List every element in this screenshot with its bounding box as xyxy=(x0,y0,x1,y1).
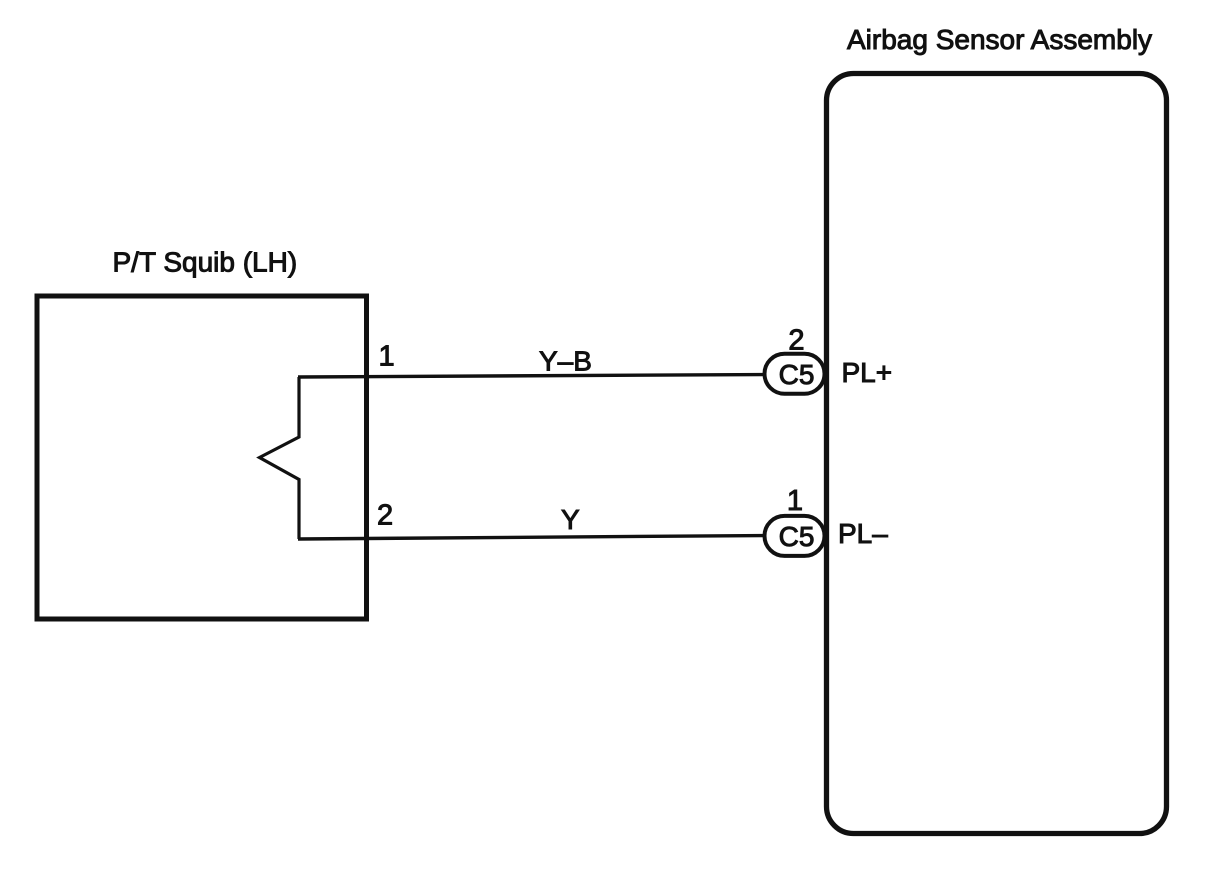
svg-text:PL+: PL+ xyxy=(842,357,893,388)
squib element (chevron) inside P/T Squib box xyxy=(260,377,300,539)
svg-text:Airbag Sensor Assembly: Airbag Sensor Assembly xyxy=(847,24,1152,55)
svg-text:2: 2 xyxy=(377,500,393,532)
Airbag Sensor Assembly component box xyxy=(827,74,1167,834)
svg-text:1: 1 xyxy=(787,485,803,517)
svg-text:Y–B: Y–B xyxy=(539,346,592,377)
svg-text:C5: C5 xyxy=(779,521,815,552)
wire: squib pin 2 to connector C5 pin 1 (Y) xyxy=(298,536,766,540)
svg-text:C5: C5 xyxy=(779,359,815,390)
svg-text:2: 2 xyxy=(788,325,804,357)
connector C5 pin 1 oval xyxy=(765,516,825,556)
connector C5 pin 2 oval xyxy=(765,354,825,394)
svg-text:1: 1 xyxy=(379,341,395,373)
wire: squib pin 1 to connector C5 pin 2 (Y-B) xyxy=(298,375,766,378)
svg-text:P/T Squib (LH): P/T Squib (LH) xyxy=(113,247,298,278)
svg-text:PL–: PL– xyxy=(838,518,888,549)
svg-text:Y: Y xyxy=(561,504,580,535)
P/T Squib (LH) component box xyxy=(37,296,367,619)
